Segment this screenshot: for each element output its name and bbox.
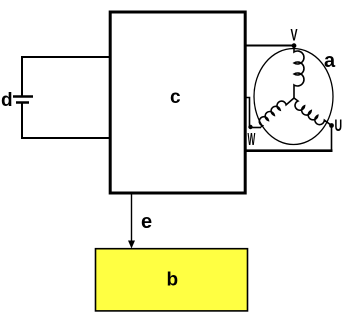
node W junction dot [248, 125, 252, 129]
svg-text:e: e [141, 211, 152, 233]
arrowhead e [128, 241, 135, 249]
load box b (yellow) [96, 249, 248, 311]
wire: battery loop top [21, 56, 110, 58]
wire: U node down [331, 126, 333, 151]
wire: arrow e shaft [131, 195, 133, 243]
wire: bottom return to box [245, 149, 333, 152]
node V junction dot [292, 43, 297, 48]
winding W (lower-left) [259, 98, 294, 127]
wire: battery loop bottom [21, 137, 110, 139]
svg-text:d: d [1, 90, 13, 111]
converter box c [110, 12, 245, 193]
wire: battery loop left upper [21, 56, 23, 96]
svg-text:c: c [170, 87, 181, 108]
node U junction dot [329, 123, 334, 128]
battery d short plate [16, 101, 29, 104]
wire: box stub to W branch [245, 98, 250, 128]
winding U (lower-right) [294, 98, 332, 126]
motor stator ellipse a [254, 49, 333, 145]
svg-text:U: U [335, 115, 343, 134]
battery d long plate [13, 95, 33, 98]
wire: box to V node [245, 45, 294, 47]
svg-text:b: b [167, 270, 179, 291]
svg-text:V: V [291, 25, 298, 44]
wire: battery loop left lower [21, 103, 23, 138]
svg-text:a: a [324, 50, 336, 72]
wire: W node to winding [251, 127, 262, 129]
winding V (top coil) [294, 47, 304, 98]
svg-text:W: W [248, 128, 256, 149]
